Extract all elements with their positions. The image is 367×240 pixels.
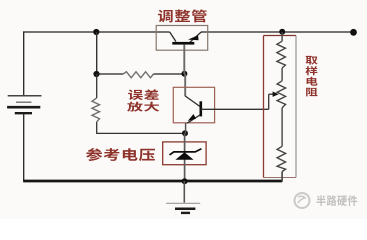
resistor R4 sampling bottom (277, 146, 286, 171)
battery B1 (7, 96, 41, 113)
label sampling resistors vertical (305, 56, 317, 96)
wire left rail lower (23, 113, 25, 181)
wire sampler top stub (281, 32, 283, 41)
node junction R-row left (93, 71, 99, 77)
label error amplifier line2 (127, 102, 159, 112)
wire Q1 base down to node (183, 44, 185, 73)
wire to zener node (96, 132, 185, 134)
wire Q2 base line to sampler tap (201, 108, 269, 110)
transistor Q1 box (156, 26, 208, 51)
wire sampler mid stub2 (281, 108, 283, 147)
watermark logo (295, 193, 310, 208)
label reference voltage (86, 148, 155, 161)
wire Q2 collector vertical (184, 74, 186, 96)
node output terminal dot (350, 29, 357, 36)
wire left branch upper (96, 74, 98, 98)
wire zener vertical (184, 133, 186, 181)
watermark text (316, 195, 357, 206)
zener D1 (170, 149, 202, 160)
wire top rail right segment (201, 31, 354, 33)
wire sampler bottom stub (281, 172, 283, 182)
resistor R2 vertical left (92, 98, 100, 122)
ground (166, 181, 200, 213)
resistor R3 sampling top (277, 41, 286, 68)
zener D1 box (163, 142, 206, 165)
wire top rail left segment (23, 31, 170, 33)
node junction ground (182, 178, 188, 184)
label adjust transistor (158, 9, 207, 22)
wire R-row left stub (97, 73, 124, 75)
potentiometer RP (277, 81, 286, 108)
node junction top-right (279, 29, 285, 35)
transistor Q2 (185, 96, 202, 123)
label error amplifier line1 (128, 89, 159, 100)
wire bottom rail (23, 180, 282, 183)
resistor R1 horizontal (123, 72, 153, 78)
wire R-row right stub (154, 73, 185, 75)
wire left branch lower (96, 122, 98, 134)
transistor Q2 box (173, 87, 214, 123)
wire sampler mid stub1 (281, 68, 283, 81)
wire vertical from top rail to R1 row (96, 32, 98, 74)
node junction base node (181, 71, 187, 77)
node junction top-left (93, 29, 99, 35)
node junction zener top (182, 130, 188, 136)
wire Q2 emitter down (185, 123, 187, 134)
potentiometer wiper arrow (269, 92, 279, 110)
sampling resistor box (264, 36, 297, 178)
transistor Q1 (170, 32, 202, 45)
wire left rail upper (23, 31, 25, 95)
